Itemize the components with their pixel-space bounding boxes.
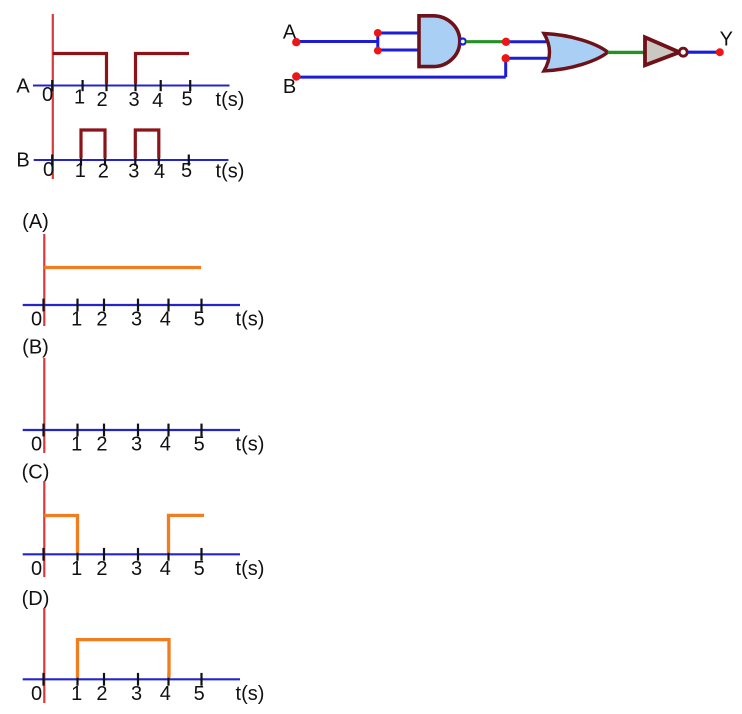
svg-text:0: 0 <box>42 84 53 106</box>
svg-text:(A): (A) <box>22 211 49 233</box>
svg-text:2: 2 <box>96 434 107 456</box>
svg-text:0: 0 <box>31 434 42 456</box>
svg-text:5: 5 <box>181 89 192 111</box>
svg-text:3: 3 <box>131 558 142 580</box>
svg-text:5: 5 <box>194 309 205 331</box>
svg-text:(D): (D) <box>22 588 50 610</box>
svg-text:4: 4 <box>160 683 171 705</box>
svg-text:4: 4 <box>152 90 163 112</box>
svg-text:1: 1 <box>75 160 86 182</box>
svg-text:0: 0 <box>43 159 54 181</box>
svg-text:0: 0 <box>31 558 42 580</box>
svg-text:4: 4 <box>160 558 171 580</box>
svg-text:3: 3 <box>131 434 142 456</box>
svg-text:2: 2 <box>98 161 109 183</box>
svg-text:0: 0 <box>31 309 42 331</box>
svg-text:1: 1 <box>71 558 82 580</box>
svg-text:t(s): t(s) <box>216 89 245 111</box>
svg-text:4: 4 <box>160 309 171 331</box>
svg-text:5: 5 <box>194 683 205 705</box>
svg-text:2: 2 <box>96 309 107 331</box>
svg-text:t(s): t(s) <box>236 434 265 456</box>
svg-text:2: 2 <box>96 89 107 111</box>
svg-text:A: A <box>16 75 30 97</box>
svg-text:1: 1 <box>71 309 82 331</box>
svg-text:4: 4 <box>160 434 171 456</box>
svg-text:(B): (B) <box>22 337 49 359</box>
svg-text:1: 1 <box>74 87 85 109</box>
svg-text:Y: Y <box>720 28 733 50</box>
svg-text:B: B <box>16 150 29 172</box>
svg-text:5: 5 <box>194 434 205 456</box>
svg-text:1: 1 <box>71 683 82 705</box>
svg-text:4: 4 <box>154 161 165 183</box>
svg-text:1: 1 <box>71 434 82 456</box>
svg-text:2: 2 <box>96 558 107 580</box>
svg-text:t(s): t(s) <box>236 309 265 331</box>
svg-text:t(s): t(s) <box>236 683 265 705</box>
svg-text:2: 2 <box>96 683 107 705</box>
svg-text:3: 3 <box>131 683 142 705</box>
svg-text:3: 3 <box>128 89 139 111</box>
svg-text:t(s): t(s) <box>236 558 265 580</box>
svg-text:0: 0 <box>31 683 42 705</box>
svg-text:t(s): t(s) <box>216 161 245 183</box>
svg-text:3: 3 <box>128 161 139 183</box>
svg-text:5: 5 <box>181 160 192 182</box>
svg-text:(C): (C) <box>22 462 50 484</box>
svg-text:3: 3 <box>131 309 142 331</box>
svg-text:5: 5 <box>194 558 205 580</box>
